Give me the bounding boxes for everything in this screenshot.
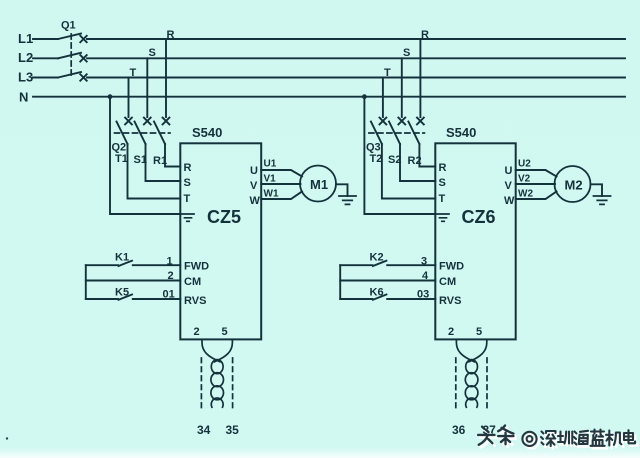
twisted pair U2 bbox=[465, 360, 478, 408]
svg-text:Q3: Q3 bbox=[366, 142, 381, 154]
svg-text:36: 36 bbox=[452, 423, 466, 437]
wire T tap drive 1 bbox=[128, 78, 130, 118]
svg-text:T1: T1 bbox=[115, 153, 128, 165]
svg-text:01: 01 bbox=[163, 289, 175, 301]
wire U2-U to motor bbox=[516, 170, 557, 177]
inverter U1 box CZ5 bbox=[180, 143, 261, 339]
svg-text:RVS: RVS bbox=[439, 295, 461, 307]
breaker Q2 pole R bbox=[154, 118, 169, 144]
svg-text:M2: M2 bbox=[565, 178, 583, 193]
svg-text:V: V bbox=[250, 180, 258, 192]
shield dashes left (U2) bbox=[455, 358, 457, 409]
svg-text:3: 3 bbox=[421, 256, 427, 268]
svg-text:L2: L2 bbox=[18, 50, 33, 65]
wire L3 bus bbox=[33, 77, 625, 79]
svg-text:R: R bbox=[439, 162, 447, 174]
shield dashes right (U2) bbox=[486, 358, 488, 409]
svg-text:K2: K2 bbox=[370, 252, 384, 264]
svg-text:K1: K1 bbox=[115, 252, 129, 264]
svg-text:T2: T2 bbox=[370, 153, 383, 165]
svg-text:S: S bbox=[439, 177, 446, 189]
svg-text:Q2: Q2 bbox=[112, 142, 127, 154]
wire L1 bus bbox=[33, 38, 625, 40]
stray ink dot bottom-left bbox=[6, 437, 8, 439]
wire S1 to box S pin bbox=[146, 144, 181, 181]
svg-text:CZ5: CZ5 bbox=[207, 207, 241, 227]
breaker Q1 pole L3 bbox=[58, 72, 87, 81]
breaker Q2 pole T (terminal X, blade) bbox=[117, 118, 132, 144]
wire K-common vertical (U2) bbox=[339, 265, 341, 299]
svg-text:S: S bbox=[149, 47, 156, 59]
wire S tap drive 2 bbox=[401, 58, 403, 117]
svg-text:RVS: RVS bbox=[184, 295, 206, 307]
wire W2 to motor bbox=[516, 192, 557, 200]
breaker Q1 pole L1 bbox=[58, 34, 87, 43]
svg-text:5: 5 bbox=[476, 326, 482, 338]
svg-text:W: W bbox=[250, 195, 261, 207]
wire K-common vertical (U1) bbox=[85, 265, 87, 299]
svg-text:M1: M1 bbox=[310, 177, 328, 192]
inverter U2 box CZ6 bbox=[435, 143, 515, 339]
svg-text:FWD: FWD bbox=[439, 261, 464, 273]
svg-text:1: 1 bbox=[167, 256, 173, 268]
wire pin5 drop (U2) bbox=[469, 339, 487, 361]
svg-text:K6: K6 bbox=[370, 287, 384, 299]
wire T2 to box T pin bbox=[382, 144, 435, 199]
svg-text:S540: S540 bbox=[446, 125, 476, 140]
svg-text:03: 03 bbox=[417, 289, 429, 301]
wire CM link (U1) bbox=[86, 280, 181, 282]
wire R1 to box R pin bbox=[165, 144, 180, 167]
svg-text:K5: K5 bbox=[115, 287, 129, 299]
svg-text:U: U bbox=[250, 165, 258, 177]
wire N bus bbox=[33, 96, 625, 98]
wire U1-U to motor bbox=[261, 170, 302, 177]
svg-text:T: T bbox=[439, 193, 446, 205]
ground M2 bbox=[594, 196, 611, 204]
svg-text:L1: L1 bbox=[18, 31, 33, 46]
svg-text:N: N bbox=[19, 90, 28, 105]
svg-text:T: T bbox=[130, 67, 137, 79]
svg-text:CM: CM bbox=[184, 276, 201, 288]
wire S2 to box S pin bbox=[400, 144, 435, 181]
svg-text:2: 2 bbox=[194, 326, 200, 338]
breaker Q2 mechanical link (dashed) bbox=[115, 132, 171, 134]
svg-text:V1: V1 bbox=[264, 174, 277, 185]
svg-text:R: R bbox=[184, 162, 192, 174]
contact K6 bbox=[340, 295, 435, 300]
ground pin symbol U2 bbox=[435, 214, 449, 221]
svg-text:S: S bbox=[403, 47, 410, 59]
breaker Q3 mechanical link (dashed) bbox=[369, 132, 425, 134]
motor M2 bbox=[555, 166, 591, 202]
svg-text:W: W bbox=[504, 195, 515, 207]
svg-text:34: 34 bbox=[197, 423, 211, 437]
svg-text:U: U bbox=[505, 165, 513, 177]
shield dashes left (U1) bbox=[200, 358, 202, 409]
wire pin5 drop (U1) bbox=[214, 339, 232, 361]
wire V1 to motor bbox=[261, 183, 300, 185]
svg-text:35: 35 bbox=[226, 423, 240, 437]
svg-text:W2: W2 bbox=[518, 189, 533, 200]
svg-text:CM: CM bbox=[439, 276, 456, 288]
twisted pair U1 bbox=[211, 360, 224, 408]
wire S tap drive 1 bbox=[146, 58, 148, 117]
wire M2 to ground bbox=[591, 184, 603, 196]
wire pin2 drop (U1) bbox=[202, 339, 220, 361]
wire R tap drive 2 bbox=[419, 39, 421, 117]
contact K5 bbox=[86, 295, 181, 300]
wire R tap drive 1 bbox=[165, 39, 167, 117]
svg-text:V: V bbox=[505, 180, 513, 192]
wire T tap drive 2 bbox=[382, 78, 384, 118]
svg-text:W1: W1 bbox=[264, 189, 279, 200]
breaker Q3 pole S bbox=[389, 118, 405, 144]
svg-text:CZ6: CZ6 bbox=[462, 207, 496, 227]
watermark: Toutiao logo 头条 @深圳海蓝机电 bbox=[478, 426, 637, 449]
contact K1 bbox=[86, 261, 181, 266]
junction N drive 2 bbox=[362, 94, 367, 99]
svg-text:5: 5 bbox=[222, 326, 228, 338]
wire L2 bus bbox=[33, 57, 625, 59]
svg-text:R: R bbox=[421, 29, 429, 41]
svg-text:S: S bbox=[184, 177, 191, 189]
wire CM link (U2) bbox=[340, 280, 435, 282]
wire pin2 drop (U2) bbox=[456, 339, 474, 361]
ground M1 bbox=[339, 196, 356, 204]
svg-text:U2: U2 bbox=[518, 159, 531, 170]
svg-text:L3: L3 bbox=[18, 70, 33, 85]
wire N drop drive 2 bbox=[364, 97, 435, 214]
shield dashes right (U1) bbox=[232, 358, 234, 409]
svg-text:Q1: Q1 bbox=[61, 20, 76, 32]
wire N drop drive 1 bbox=[110, 97, 180, 214]
wire M1 to ground bbox=[336, 184, 348, 196]
svg-text:2: 2 bbox=[448, 326, 454, 338]
svg-text:T: T bbox=[184, 193, 191, 205]
svg-text:2: 2 bbox=[168, 270, 174, 282]
wire V2 to motor bbox=[516, 183, 555, 185]
wire W1 to motor bbox=[261, 192, 302, 200]
svg-text:S540: S540 bbox=[192, 125, 222, 140]
breaker Q3 pole R bbox=[408, 118, 423, 144]
junction N drive 1 bbox=[108, 94, 113, 99]
breaker Q1 mechanical link (dashed) bbox=[70, 34, 72, 78]
wire T1 to box T pin bbox=[128, 144, 181, 199]
svg-text:U1: U1 bbox=[264, 159, 277, 170]
svg-text:V2: V2 bbox=[518, 174, 531, 185]
wire R2 to box R pin bbox=[419, 144, 435, 167]
svg-text:R: R bbox=[167, 29, 175, 41]
breaker Q3 pole T bbox=[371, 118, 386, 144]
ground pin symbol U1 bbox=[180, 214, 194, 221]
svg-text:FWD: FWD bbox=[184, 261, 209, 273]
svg-text:4: 4 bbox=[422, 270, 429, 282]
contact K2 bbox=[340, 261, 435, 266]
breaker Q1 pole L2 bbox=[58, 53, 87, 62]
svg-text:T: T bbox=[384, 67, 391, 79]
motor M1 bbox=[300, 166, 336, 202]
breaker Q2 pole S bbox=[135, 118, 151, 144]
